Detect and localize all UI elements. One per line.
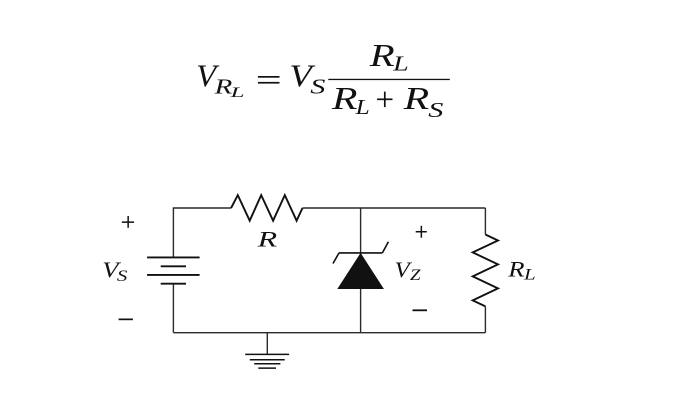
svg-text:S: S (117, 268, 128, 285)
svg-text:L: L (523, 267, 536, 284)
svg-text:S: S (310, 75, 325, 99)
svg-text:S: S (428, 98, 443, 122)
svg-text:R: R (331, 80, 358, 116)
svg-text:R: R (368, 37, 395, 73)
svg-text:R: R (507, 257, 525, 282)
svg-text:Z: Z (410, 267, 422, 284)
svg-text:L: L (354, 95, 369, 119)
svg-text:R: R (256, 227, 277, 252)
svg-text:R: R (402, 80, 429, 116)
svg-text:L: L (229, 85, 245, 101)
svg-text:L: L (392, 51, 409, 75)
